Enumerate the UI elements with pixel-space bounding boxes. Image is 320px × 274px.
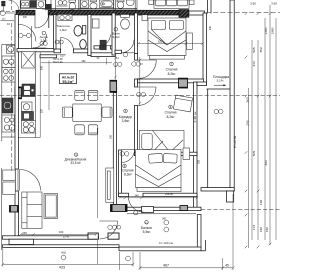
svg-text:100: 100 bbox=[60, 53, 65, 57]
counter outline neighbor bbox=[2, 44, 15, 46]
toilet upper 2 bbox=[117, 0, 124, 2]
svg-text:3.60: 3.60 bbox=[250, 2, 256, 6]
svg-text:150: 150 bbox=[265, 227, 269, 232]
armchair bed2 bbox=[173, 95, 192, 112]
svg-text:3.60: 3.60 bbox=[271, 2, 277, 6]
svg-text:160: 160 bbox=[59, 230, 64, 234]
svg-text:5,5м²: 5,5м² bbox=[143, 230, 151, 234]
symbol pair antre bbox=[19, 33, 23, 37]
svg-text:8,3м²: 8,3м² bbox=[124, 173, 132, 177]
column NE corner hatched bbox=[179, 10, 189, 18]
door arc closet B bbox=[100, 45, 111, 47]
line top right facade up bbox=[207, 0, 209, 14]
bath C pedestal basin bbox=[121, 15, 130, 18]
wall bed3 south segments bbox=[119, 193, 129, 196]
symbol pair terrace bbox=[214, 109, 218, 113]
svg-text:150: 150 bbox=[259, 227, 263, 232]
svg-text:240: 240 bbox=[134, 194, 139, 198]
svg-text:3,2м²: 3,2м² bbox=[112, 35, 119, 39]
boiler dark closet B bbox=[100, 40, 106, 50]
door arc entry bbox=[34, 15, 36, 29]
svg-text:1480: 1480 bbox=[264, 27, 268, 34]
stove neighbor bbox=[2, 68, 15, 83]
dining table bbox=[73, 104, 101, 121]
svg-text:340: 340 bbox=[209, 25, 212, 30]
sink unit dark bbox=[22, 84, 35, 97]
cabinet closet B bbox=[92, 19, 99, 28]
svg-text:394: 394 bbox=[264, 160, 268, 165]
label apartment box bbox=[60, 74, 77, 84]
line terrace north bbox=[207, 88, 231, 90]
wall bed3 west bbox=[119, 150, 122, 197]
symbol pair antre2 bbox=[40, 42, 44, 46]
door arc bed3-balcony bbox=[129, 196, 144, 198]
label bath bbox=[114, 28, 118, 32]
basin upper 2 bbox=[127, 0, 135, 6]
dim line bed3 south bbox=[120, 197, 198, 199]
svg-text:1,9м²: 1,9м² bbox=[59, 28, 66, 32]
symbol pair living balcony bbox=[108, 225, 112, 229]
wall below toilet/closet bbox=[54, 49, 61, 53]
label bed1 bbox=[170, 62, 174, 66]
hob bbox=[22, 121, 36, 134]
wall top hatched main segment bbox=[48, 10, 179, 15]
bed2 single bbox=[139, 131, 184, 153]
wall stub terrace SE bbox=[227, 191, 234, 202]
dashed line top left bbox=[0, 10, 15, 12]
svg-text:505: 505 bbox=[252, 151, 256, 156]
wall bed2 east bbox=[194, 82, 198, 208]
chair right bbox=[102, 107, 112, 118]
wall balcony south parapet bbox=[119, 247, 201, 251]
door arc bed3 bbox=[122, 149, 135, 151]
basin pair upper bath bbox=[58, 1, 62, 5]
wall living south bbox=[3, 236, 99, 239]
wall toilet right vertical bbox=[88, 15, 91, 56]
svg-text:258.66: 258.66 bbox=[165, 192, 173, 196]
sink dark upper kitchen bbox=[30, 1, 36, 8]
svg-text:300: 300 bbox=[110, 134, 113, 139]
chair top1 bbox=[75, 90, 85, 100]
wall top divider bbox=[46, 4, 52, 9]
svg-text:345: 345 bbox=[40, 65, 43, 70]
section dashed line main bbox=[0, 94, 280, 96]
wall jog bed1-terrace bbox=[197, 82, 207, 86]
wall corridor west bbox=[113, 93, 116, 206]
svg-text:h=120 см: h=120 см bbox=[233, 136, 237, 148]
washer bbox=[22, 102, 33, 112]
svg-text:282: 282 bbox=[82, 60, 87, 63]
wall top hatched left segment bbox=[16, 10, 35, 15]
wall corridor east segments bbox=[135, 54, 138, 61]
nightstand bed1 left bbox=[142, 15, 148, 21]
bed1 bbox=[148, 18, 186, 56]
wall balcony east parapet bbox=[197, 215, 201, 248]
dim line bed1 room bbox=[139, 43, 203, 45]
svg-text:33,5 м²: 33,5 м² bbox=[70, 161, 80, 165]
wall divider bbox=[134, 0, 136, 11]
coffee table bbox=[44, 194, 58, 219]
nightstand left bbox=[149, 0, 154, 5]
svg-text:433: 433 bbox=[59, 266, 65, 270]
svg-text:Ап.№10: Ап.№10 bbox=[62, 75, 74, 79]
terrace lower edge line bbox=[3, 245, 120, 248]
wall bed1/bed2 horizontal bbox=[138, 79, 204, 83]
washer neighbor dark bbox=[2, 98, 13, 113]
door arc bath C bbox=[121, 52, 134, 54]
label balcony bbox=[145, 221, 149, 225]
symbol pair bed3 door bbox=[120, 152, 124, 156]
label bed2 bbox=[169, 105, 173, 109]
svg-text:363: 363 bbox=[246, 97, 250, 102]
svg-text:15 45: 15 45 bbox=[63, 235, 70, 239]
svg-text:140: 140 bbox=[102, 45, 107, 49]
svg-text:55,2м²: 55,2м² bbox=[62, 80, 74, 84]
door arc upper apartment left bbox=[9, 0, 20, 10]
svg-text:h= 120 см: h= 120 см bbox=[159, 241, 173, 245]
toilet room A bowl bbox=[83, 26, 86, 35]
label antre bbox=[42, 31, 46, 35]
column left wall hatched bbox=[15, 87, 22, 99]
svg-text:565: 565 bbox=[252, 47, 256, 52]
symbol bottom2 bbox=[126, 256, 131, 261]
svg-text:8,2м²: 8,2м² bbox=[168, 72, 176, 76]
window sills outside left bbox=[3, 170, 15, 181]
node symbol top-left squares bbox=[2, 1, 6, 3]
wall divider bbox=[113, 0, 115, 11]
dim line corridor opening vertical bbox=[115, 57, 117, 80]
bed3 bbox=[136, 150, 182, 188]
label living bbox=[74, 153, 77, 156]
hob neighbor bbox=[2, 115, 15, 132]
svg-text:120: 120 bbox=[40, 108, 43, 113]
svg-text:1980: 1980 bbox=[270, 27, 274, 34]
label bed3 bbox=[123, 164, 127, 168]
svg-text:343: 343 bbox=[252, 61, 256, 66]
wall left exterior bbox=[15, 15, 18, 170]
dim line bottom left 433 bbox=[3, 263, 133, 265]
svg-text:3,8м²: 3,8м² bbox=[122, 119, 130, 123]
wall caps balcony door bbox=[88, 233, 98, 239]
sink unit upper kitchen bbox=[21, 1, 30, 8]
wire vertical top left bbox=[19, 0, 21, 11]
chair bottom1 bbox=[75, 125, 85, 135]
fridge bbox=[22, 52, 36, 69]
dim verticals right side bbox=[248, 88, 250, 248]
wall divider bbox=[77, 0, 79, 11]
svg-text:300: 300 bbox=[198, 159, 201, 164]
small basin neighbor bbox=[7, 45, 15, 53]
bed upper apartment bbox=[154, 0, 189, 8]
door arc bed2 bbox=[138, 86, 157, 88]
door arc bed1 bbox=[138, 59, 157, 61]
nightstand right bbox=[189, 0, 194, 5]
oven dark bbox=[22, 112, 34, 121]
svg-text:467: 467 bbox=[163, 263, 169, 267]
toilet room A basin counter bbox=[58, 15, 72, 21]
thin guide line kitchen bbox=[39, 52, 41, 138]
svg-text:345: 345 bbox=[22, 231, 27, 235]
svg-text:240: 240 bbox=[246, 120, 250, 125]
door arc antre-living bbox=[33, 47, 47, 49]
column bed wall hatched bbox=[179, 78, 188, 88]
toilet upper bbox=[69, 0, 76, 2]
wall balcony north hatched band bbox=[127, 207, 201, 210]
svg-text:305: 305 bbox=[23, 16, 28, 19]
chair top2 bbox=[88, 90, 98, 100]
symbol corridor num bbox=[123, 52, 128, 57]
svg-text:3,3м²: 3,3м² bbox=[40, 39, 47, 43]
door arc left wall balcony bbox=[19, 170, 21, 191]
dim short top opening bbox=[52, 54, 66, 56]
svg-text:173: 173 bbox=[252, 225, 256, 230]
toilet sideways upper bbox=[90, 3, 97, 9]
wall bath south segment bbox=[115, 50, 122, 53]
svg-text:3,1%: 3,1% bbox=[216, 79, 223, 83]
counter outline bbox=[34, 52, 36, 138]
dim line living width bbox=[21, 234, 97, 236]
svg-text:198: 198 bbox=[259, 200, 263, 205]
column corridor hatched bbox=[110, 80, 117, 92]
washer upper bath bbox=[81, 0, 89, 8]
sink circles neighbor bbox=[2, 56, 15, 68]
symbol stack balcony bbox=[164, 220, 169, 225]
wall terrace south bbox=[201, 188, 234, 191]
label corridor bbox=[124, 109, 128, 113]
door arc living-balcony bbox=[100, 220, 118, 222]
node symbol top-left circle bbox=[0, 10, 5, 15]
door arc toilet bbox=[60, 38, 62, 51]
bathtub upper bbox=[100, 0, 114, 8]
symbol pair bed2 door bbox=[137, 92, 141, 96]
wall bed1 east bbox=[203, 13, 207, 85]
svg-text:h=80 см: h=80 см bbox=[193, 112, 197, 123]
svg-text:АШ: АШ bbox=[61, 250, 66, 254]
wall bed2/bed3 horizontal bbox=[135, 152, 198, 155]
symbol stack bottom bbox=[61, 255, 66, 260]
svg-text:359: 359 bbox=[259, 47, 263, 52]
wall footing left bbox=[9, 239, 34, 244]
nightstand bed3 bbox=[183, 148, 190, 160]
thin guide line balcony door bbox=[96, 128, 98, 218]
wall closet/bath vertical bbox=[112, 13, 115, 55]
tv unit bbox=[106, 168, 114, 202]
dim ticks right side bbox=[245, 12, 272, 248]
sofa bbox=[22, 192, 42, 228]
wall antre/toilet short vertical bbox=[54, 15, 57, 50]
symbol pair toilet bbox=[55, 40, 59, 44]
dim line bottom right 467 bbox=[140, 267, 232, 269]
chair bottom2 bbox=[88, 125, 98, 135]
wall antre south bbox=[17, 49, 54, 52]
symbol pair bed1 door bbox=[132, 62, 136, 66]
wall bath/bed1 vertical bbox=[135, 13, 138, 54]
washer upper kitchen bbox=[37, 0, 46, 9]
svg-text:8,2м²: 8,2м² bbox=[167, 115, 175, 119]
dim line corridor vertical bbox=[139, 57, 141, 106]
column left wall lower hatched bbox=[10, 206, 19, 213]
door arc antre closet bbox=[18, 24, 36, 41]
svg-text:360: 360 bbox=[162, 218, 167, 221]
svg-text:302: 302 bbox=[158, 41, 163, 44]
symbol pair corridor bbox=[114, 62, 118, 66]
svg-text:45: 45 bbox=[225, 263, 229, 267]
wall terrace east facade bbox=[230, 0, 234, 191]
chair left bbox=[62, 107, 72, 118]
nightstand bed1 right bbox=[187, 33, 193, 50]
